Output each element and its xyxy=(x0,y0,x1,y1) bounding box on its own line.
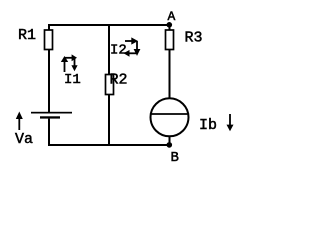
svg-text:A: A xyxy=(168,9,176,24)
svg-text:I1: I1 xyxy=(64,72,81,88)
wire left upper xyxy=(48,24,50,31)
svg-text:Ib: Ib xyxy=(199,117,217,134)
wire A to R3 xyxy=(169,25,171,31)
current source Ib circle xyxy=(151,98,189,136)
wire source to B xyxy=(169,136,171,145)
svg-text:Va: Va xyxy=(15,131,33,148)
arrow Ib down xyxy=(227,114,234,131)
node A xyxy=(167,22,173,28)
svg-text:R3: R3 xyxy=(185,30,203,47)
arrow Va up xyxy=(16,112,23,131)
node B xyxy=(167,142,173,148)
svg-text:B: B xyxy=(171,150,179,166)
wire bottom xyxy=(48,144,170,146)
resistor R3 xyxy=(166,30,174,50)
mesh current I2 arrow xyxy=(124,37,141,56)
wire middle vertical xyxy=(108,26,110,144)
wire left middle xyxy=(48,50,50,113)
mesh current I1 arrow xyxy=(61,54,78,72)
current source chord xyxy=(151,113,188,115)
svg-text:I2: I2 xyxy=(110,43,127,59)
battery Va short plate xyxy=(40,116,60,118)
battery Va long plate xyxy=(31,112,72,114)
resistor R1 xyxy=(45,30,53,50)
wire top xyxy=(48,24,171,26)
svg-text:R1: R1 xyxy=(18,27,36,44)
wire left lower xyxy=(48,119,50,146)
resistor R2 xyxy=(106,75,114,95)
svg-text:R2: R2 xyxy=(110,72,128,89)
wire R3 to source xyxy=(169,50,171,99)
